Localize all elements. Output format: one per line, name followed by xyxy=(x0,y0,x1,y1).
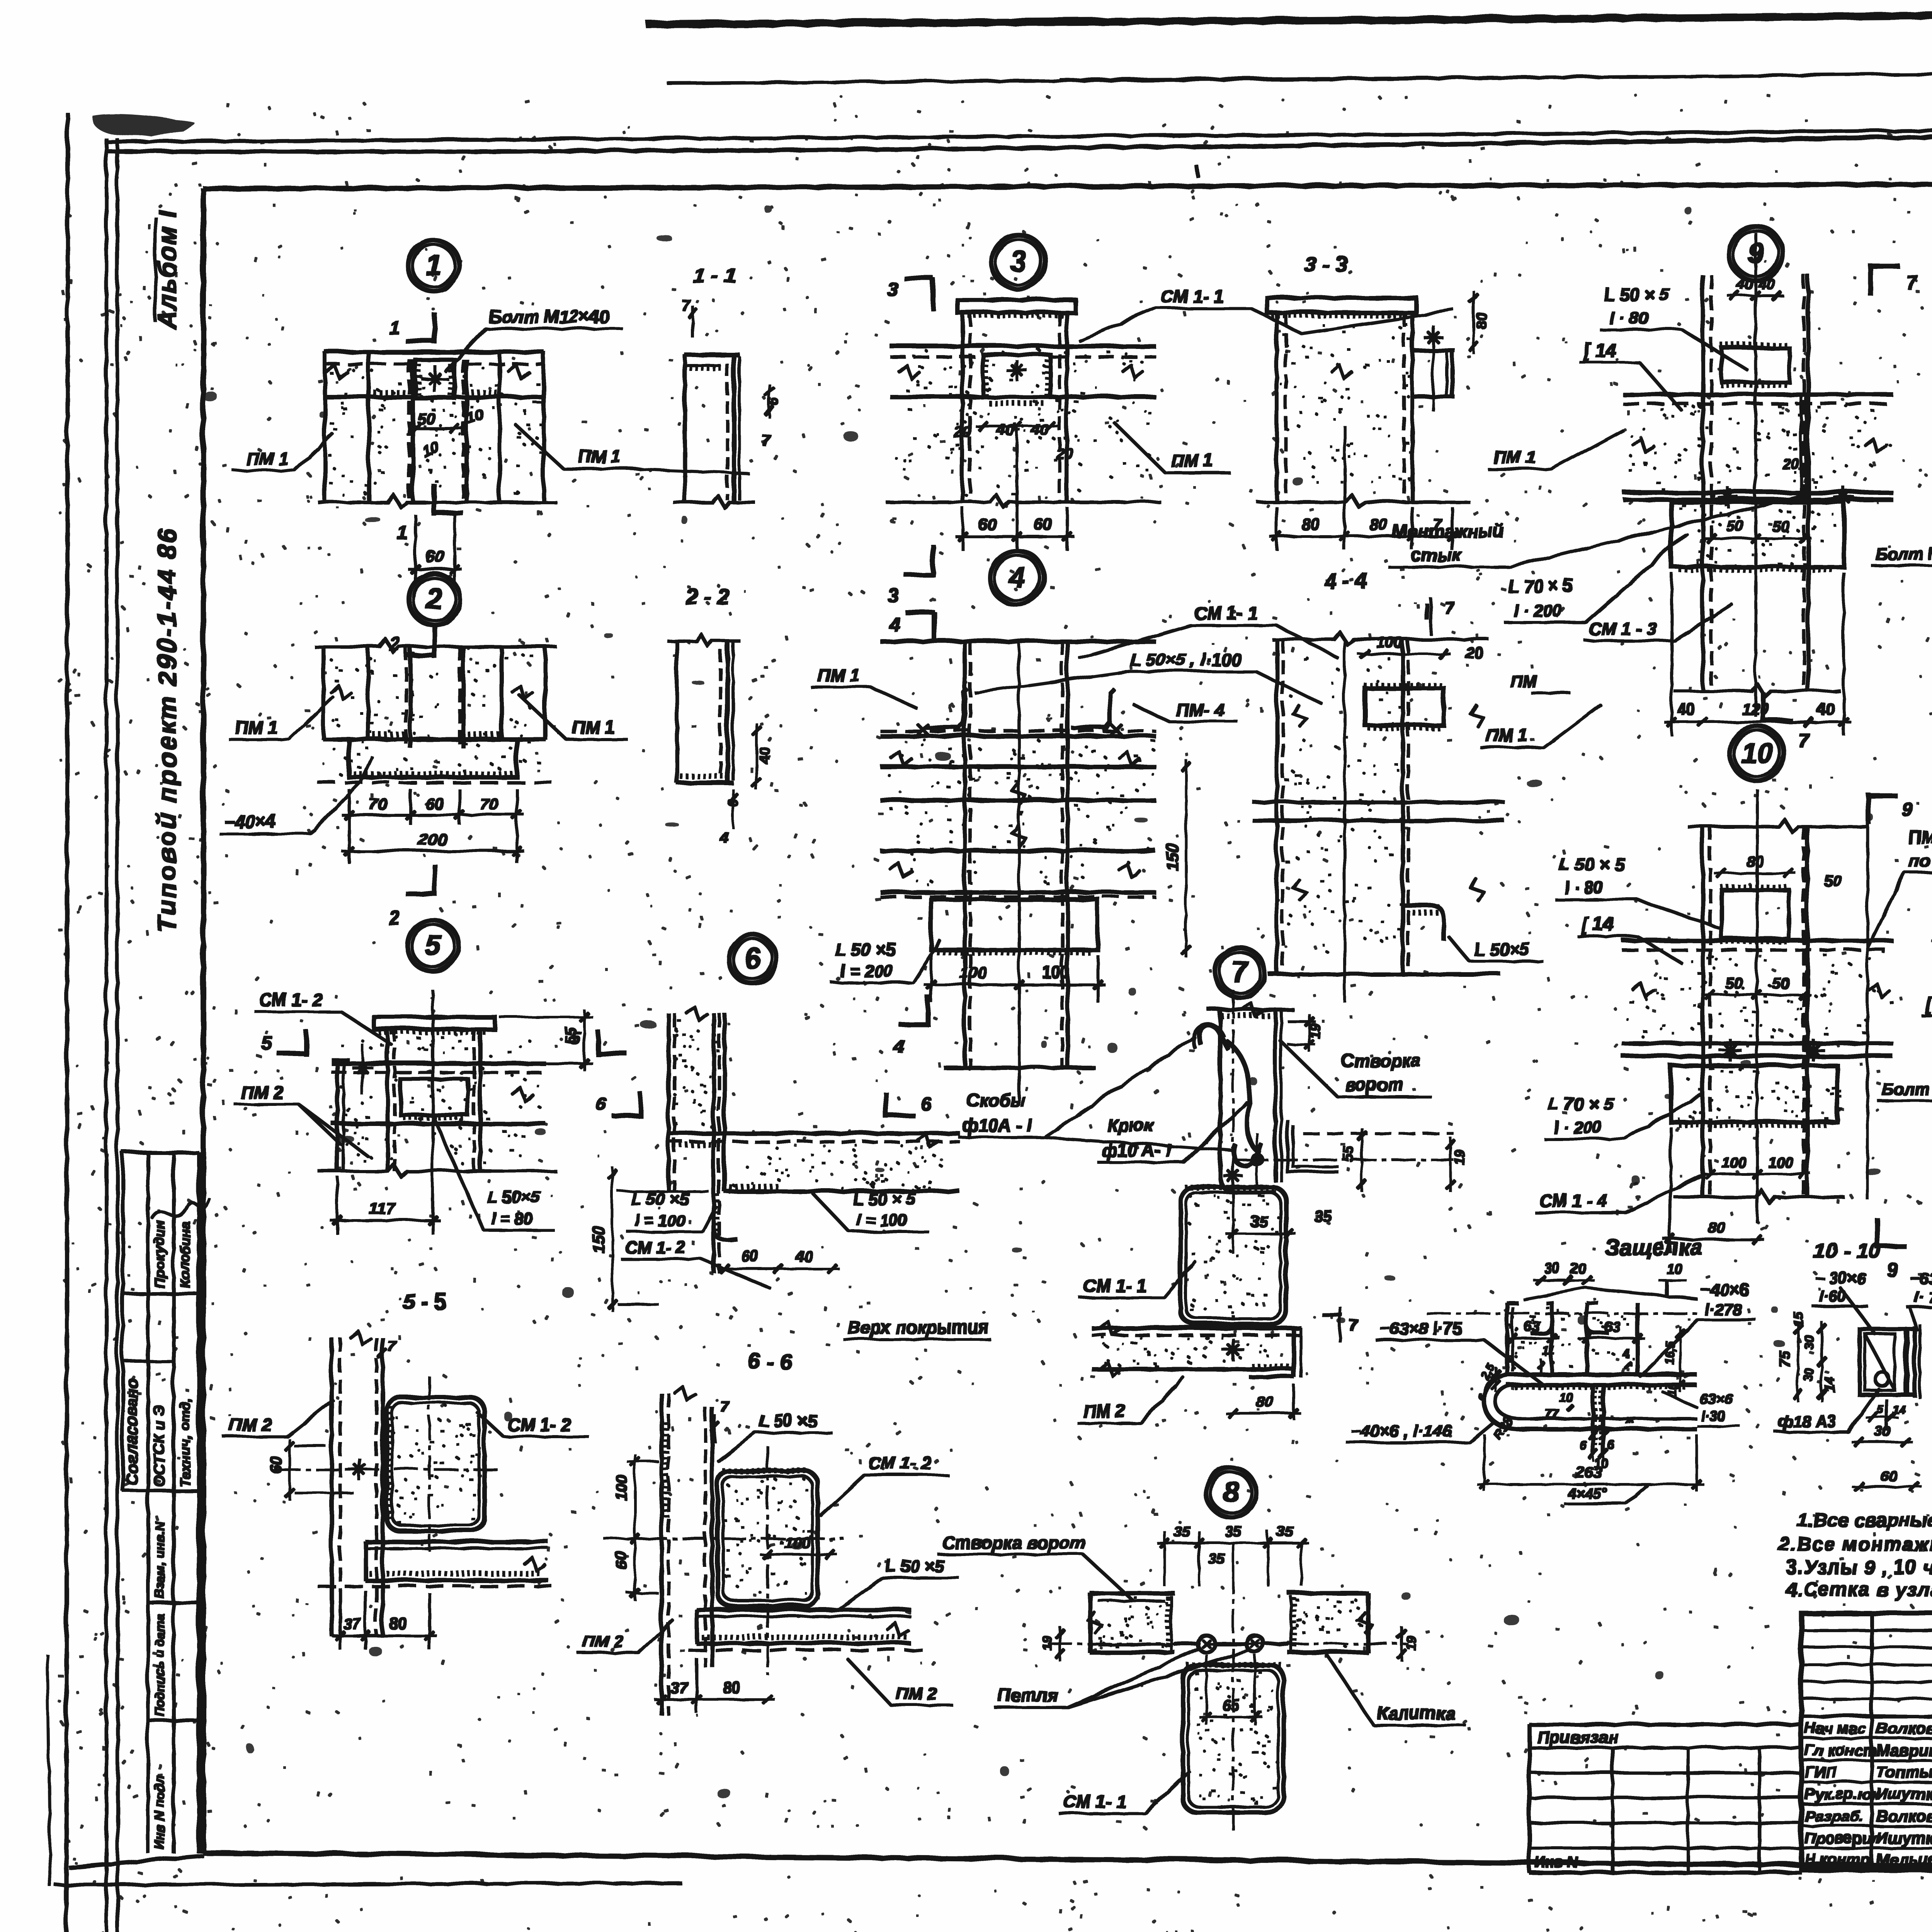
svg-text:6: 6 xyxy=(1474,1391,1488,1402)
node 10 section marker 9 top xyxy=(1867,792,1912,822)
svg-text:ПМ 1: ПМ 1 xyxy=(578,446,620,466)
svg-text:СМ 1- 2: СМ 1- 2 xyxy=(258,988,321,1009)
svg-text:5 - 5: 5 - 5 xyxy=(402,1288,446,1313)
svg-text:263: 263 xyxy=(1575,1463,1601,1480)
latch dims 63 63 11 4 xyxy=(1504,1318,1683,1391)
svg-text:20: 20 xyxy=(953,423,971,440)
node 6 stipple xyxy=(672,1019,941,1189)
node 2 posts and base plate detail xyxy=(314,638,555,781)
svg-text:35: 35 xyxy=(1224,1522,1240,1539)
node 3 bubble xyxy=(990,234,1044,288)
svg-text:1.Все сварные швы Н1Д5 по: 1.Все сварные швы Н1Д5 по ГОСТ 21.107 - … xyxy=(1796,1508,1932,1530)
section 7-7 label Болт М12х40 xyxy=(1870,516,1932,564)
section 4-4 label L50x5 xyxy=(1447,935,1542,960)
svg-text:ПМ 1: ПМ 1 xyxy=(1492,446,1535,466)
svg-text:СМ 1- 2: СМ 1- 2 xyxy=(624,1237,684,1256)
svg-text:37: 37 xyxy=(342,1614,360,1631)
svg-text:50: 50 xyxy=(1823,871,1840,888)
svg-text:6 - 6: 6 - 6 xyxy=(747,1348,791,1372)
svg-text:117: 117 xyxy=(368,1198,395,1216)
svg-text:l · 80: l · 80 xyxy=(1608,308,1647,327)
section 4-4 dims xyxy=(1357,597,1482,660)
node 3 stipple texture xyxy=(895,348,1149,495)
svg-text:Волкова: Волкова xyxy=(1875,1806,1932,1824)
svg-text:5: 5 xyxy=(1876,1402,1883,1415)
node 4 section marker 4 bottom xyxy=(893,995,927,1057)
node 9 label L50x5 l=80 xyxy=(1599,283,1747,369)
svg-text:l · 200: l · 200 xyxy=(1512,600,1561,619)
svg-text:ПМ 2: ПМ 2 xyxy=(582,1631,622,1650)
svg-text:30: 30 xyxy=(1801,1367,1815,1381)
section 3-3 dim 80 right xyxy=(1468,290,1489,352)
svg-text:L 50×5 , l·100: L 50×5 , l·100 xyxy=(1129,648,1240,668)
node 6 bubble xyxy=(728,934,776,982)
section 3-3 dims 80 80 7 xyxy=(1269,425,1458,549)
node 8 bubble xyxy=(1205,1466,1255,1516)
svg-text:60: 60 xyxy=(1879,1467,1896,1483)
stamp rotated texts xyxy=(121,1198,209,1849)
svg-text:8: 8 xyxy=(1222,1475,1238,1507)
svg-text:Петля: Петля xyxy=(997,1684,1057,1704)
svg-text:l = 80: l = 80 xyxy=(490,1208,531,1226)
svg-text:l = 100: l = 100 xyxy=(856,1210,906,1228)
section 3-3 title xyxy=(1303,251,1346,275)
svg-text:L 50 ×5: L 50 ×5 xyxy=(630,1189,688,1207)
svg-text:ПМ 1: ПМ 1 xyxy=(234,716,276,736)
svg-text:ПМ 1: ПМ 1 xyxy=(816,664,859,684)
svg-text:55: 55 xyxy=(561,1026,578,1043)
node 1 section marker 1 top xyxy=(388,312,434,342)
node 9 column joint detail xyxy=(1622,232,1891,715)
node 9 label ПМ1 left xyxy=(1487,429,1622,468)
section 9-9 label Болт М12х40 xyxy=(1876,1066,1932,1099)
node 8 dims 19 19 xyxy=(1039,1626,1417,1660)
node 2 dimensions 70 60 70 xyxy=(341,788,523,862)
svg-text:200: 200 xyxy=(417,829,446,848)
svg-text:L 70 × 5: L 70 × 5 xyxy=(1547,1093,1613,1113)
node 2 label ПМ1 right xyxy=(518,694,626,738)
svg-text:7: 7 xyxy=(1348,1316,1357,1333)
node 5 dim 117 xyxy=(329,1175,439,1233)
node 8 label Петля xyxy=(993,1648,1248,1706)
node 4 dims 100 100 150 xyxy=(923,759,1189,1001)
node 5 bubble xyxy=(406,919,457,970)
svg-text:L 50 ×5: L 50 ×5 xyxy=(758,1411,816,1430)
node 9 label ПМ1 lower left xyxy=(1479,703,1600,746)
node 6 marker 6 right xyxy=(885,1092,930,1117)
svg-text:3: 3 xyxy=(886,278,897,299)
svg-text:L 50 ×5: L 50 ×5 xyxy=(885,1556,943,1575)
node 9 section marker 7 bottom xyxy=(1762,692,1808,750)
latch title Защелка xyxy=(1604,1234,1702,1259)
node 7 label ПМ2 xyxy=(1077,1376,1182,1422)
latch dims left 2,5 6 xyxy=(1474,1360,1499,1402)
svg-text:Волков: Волков xyxy=(1875,1718,1932,1736)
svg-text:−63×8: −63×8 xyxy=(1909,1268,1932,1286)
svg-text:100: 100 xyxy=(612,1473,629,1499)
svg-text:11: 11 xyxy=(1542,1343,1554,1357)
svg-text:4: 4 xyxy=(893,1036,904,1057)
node 4 bubble xyxy=(989,549,1043,604)
svg-text:Топтыгин: Топтыгин xyxy=(1875,1762,1932,1780)
node 7 hinge bolt and angle xyxy=(1233,1119,1452,1184)
svg-text:Мельцес: Мельцес xyxy=(1875,1849,1932,1867)
svg-text:ПМ 1: ПМ 1 xyxy=(571,716,614,736)
svg-text:СМ 1- 1: СМ 1- 1 xyxy=(1159,285,1223,305)
svg-text:Болт М12×40: Болт М12×40 xyxy=(1880,1078,1932,1097)
svg-text:Крюк: Крюк xyxy=(1106,1114,1153,1134)
svg-text:80: 80 xyxy=(1745,852,1763,869)
svg-text:ПМ 2: ПМ 2 xyxy=(228,1413,270,1434)
section 9-9 label ПМ2 крепить по узлам 5 и 6 xyxy=(1866,826,1932,947)
node 5 markers 5 xyxy=(260,1027,626,1055)
svg-text:Створка: Створка xyxy=(1340,1049,1420,1070)
svg-text:СМ 1- 1: СМ 1- 1 xyxy=(1062,1790,1125,1810)
svg-text:60: 60 xyxy=(424,546,443,565)
node 2 dimension 200 xyxy=(341,829,523,854)
svg-text:19: 19 xyxy=(1039,1634,1053,1649)
section 10-10 bracket detail xyxy=(1858,1316,1932,1495)
svg-text:63: 63 xyxy=(1523,1318,1539,1333)
svg-text:80: 80 xyxy=(722,1678,739,1695)
outer double border left xyxy=(105,138,117,1932)
svg-text:−40×4: −40×4 xyxy=(223,811,275,831)
node 7 label Крюк ф10 А-I xyxy=(1097,1101,1246,1161)
svg-text:Скобы: Скобы xyxy=(965,1089,1024,1109)
svg-text:80: 80 xyxy=(1707,1218,1725,1235)
node 3 dims 20 40 40 20 xyxy=(953,420,1072,461)
node 10 label СМ 1-4 xyxy=(1534,1175,1700,1211)
node 4 label L50x5 l=200 xyxy=(830,938,939,981)
svg-text:20: 20 xyxy=(1781,455,1798,471)
section 2-2 title xyxy=(684,583,728,607)
svg-text:4×45°: 4×45° xyxy=(1566,1485,1606,1501)
node 5 cap and rails detail xyxy=(317,989,555,1198)
svg-text:10: 10 xyxy=(419,438,440,459)
svg-text:СМ 1- 2: СМ 1- 2 xyxy=(867,1452,930,1472)
svg-text:6: 6 xyxy=(1578,1437,1585,1451)
node 1 label ПМ1 right xyxy=(514,423,748,472)
svg-text:l · 80: l · 80 xyxy=(1563,878,1602,896)
svg-text:Согласовано: Согласовано xyxy=(121,1377,139,1484)
svg-text:Гл конст.: Гл конст. xyxy=(1804,1741,1879,1758)
section 6-6 dim 7 top xyxy=(710,1397,728,1441)
svg-text:30: 30 xyxy=(1544,1260,1559,1276)
svg-text:40: 40 xyxy=(1030,420,1048,437)
node 7 dim 80 xyxy=(1225,1383,1299,1418)
svg-text:Колобина: Колобина xyxy=(176,1220,192,1287)
node 10 stipple xyxy=(1627,951,1892,1122)
svg-text:60: 60 xyxy=(612,1551,629,1568)
svg-text:4: 4 xyxy=(719,829,728,846)
svg-text:40: 40 xyxy=(755,746,772,764)
svg-text:9: 9 xyxy=(1886,1258,1896,1279)
node 9 dims 40 40 xyxy=(1726,275,1782,299)
node 4 label СМ 1-1 xyxy=(1078,602,1337,657)
svg-text:L 50 × 5: L 50 × 5 xyxy=(852,1189,915,1207)
node 2 section marker bottom xyxy=(388,864,434,928)
section 6-6 stipple xyxy=(723,1478,810,1592)
svg-text:30: 30 xyxy=(1801,1334,1815,1349)
node 9 label Монтажный стык xyxy=(1387,495,1800,566)
svg-text:L 50 × 5: L 50 × 5 xyxy=(1603,283,1669,303)
svg-text:2 - 2: 2 - 2 xyxy=(684,583,728,607)
svg-text:[ 14: [ 14 xyxy=(1923,992,1932,1013)
svg-text:Технич, отд,: Технич, отд, xyxy=(176,1396,192,1486)
svg-text:7: 7 xyxy=(1231,955,1248,987)
node 8 label Створка ворот xyxy=(937,1531,1132,1600)
node 9 label СМ 1-3 xyxy=(1583,603,1731,639)
svg-text:l = 100: l = 100 xyxy=(634,1210,684,1228)
svg-text:19: 19 xyxy=(1306,1022,1321,1037)
section 6-6 label СМ 1-2 xyxy=(819,1452,947,1515)
svg-text:Ишуткин: Ишуткин xyxy=(1875,1828,1932,1846)
svg-text:14: 14 xyxy=(1822,1376,1837,1391)
svg-text:Ишуткин: Ишуткин xyxy=(1875,1784,1932,1802)
svg-text:Альбом I: Альбом I xyxy=(152,208,180,328)
node 5 stipple xyxy=(339,1036,539,1163)
svg-text:50: 50 xyxy=(1771,974,1788,991)
node 4 label ПМ-4 xyxy=(1132,699,1236,721)
section 3-3 stipple xyxy=(1279,323,1411,482)
svg-text:ПМ 1: ПМ 1 xyxy=(245,447,287,468)
latch label -63x8 l=75 xyxy=(1375,1318,1542,1383)
bottom scan shadow lines xyxy=(46,1654,1932,1932)
section 5-5 dims 37 80 xyxy=(332,1590,435,1648)
node 6 label L50x5 l=100 left xyxy=(626,1189,715,1231)
svg-text:Н контр: Н контр xyxy=(1804,1850,1869,1867)
svg-text:ПМ 1: ПМ 1 xyxy=(1485,724,1527,744)
svg-text:40: 40 xyxy=(794,1247,812,1264)
section 6-6 title xyxy=(747,1348,791,1372)
svg-text:ГИП: ГИП xyxy=(1804,1763,1836,1780)
svg-text:10: 10 xyxy=(1740,736,1772,768)
svg-text:80: 80 xyxy=(1255,1392,1272,1409)
svg-text:16,5: 16,5 xyxy=(1662,1340,1676,1364)
main drawing frame xyxy=(202,182,1932,1869)
svg-text:5: 5 xyxy=(423,928,440,960)
left stamp table xyxy=(122,1151,197,1852)
svg-text:70: 70 xyxy=(368,794,386,812)
section 6-6 dims 100 60 xyxy=(612,1453,657,1599)
svg-text:ф10А - І: ф10А - І xyxy=(961,1114,1031,1134)
node 5 label ПМ2 xyxy=(233,1081,367,1155)
svg-text:L 50×5: L 50×5 xyxy=(1473,938,1529,958)
section 4-4 detail xyxy=(1252,631,1503,1001)
svg-text:35: 35 xyxy=(1276,1522,1292,1539)
latch detail drawing xyxy=(1426,1302,1695,1453)
node 6 label L50x5 l=100 right xyxy=(811,1189,927,1231)
svg-text:l·30: l·30 xyxy=(1700,1407,1724,1423)
section 2-2 dims xyxy=(719,723,772,846)
svg-text:4 - 4: 4 - 4 xyxy=(1323,568,1367,592)
node 8 dims 35 35 35 xyxy=(1156,1522,1307,1584)
node 7 gate latch detail xyxy=(1192,989,1293,1217)
svg-text:60: 60 xyxy=(977,514,995,532)
node 10 column joint detail xyxy=(1621,788,1891,1221)
node 8 label СМ 1-1 xyxy=(1058,1770,1188,1812)
svg-text:ПМ 2 крепить: ПМ 2 крепить xyxy=(1907,826,1932,846)
svg-text:6: 6 xyxy=(594,1093,605,1113)
node 9 stipple xyxy=(1628,402,1889,565)
svg-text:60: 60 xyxy=(425,794,443,812)
section 1-1 channel xyxy=(672,354,753,506)
svg-text:7: 7 xyxy=(760,431,770,448)
svg-text:20: 20 xyxy=(1569,1260,1585,1276)
node 2 label ПМ1 left xyxy=(228,696,332,738)
node 4 label ПМ1 xyxy=(810,664,916,707)
svg-text:6: 6 xyxy=(765,397,781,405)
node 7 label СМ1-1 xyxy=(1078,1260,1194,1296)
svg-text:9: 9 xyxy=(1901,798,1912,820)
node 3 label СМ 1-1 with leaders xyxy=(1078,285,1453,340)
svg-text:ф18 А3: ф18 А3 xyxy=(1777,1411,1835,1429)
svg-text:19: 19 xyxy=(1403,1634,1417,1649)
section 6-6 dim 100 center xyxy=(759,1533,836,1558)
node 3 section marker 3 top xyxy=(886,277,932,309)
node 7 dim 55 19 xyxy=(1339,1127,1466,1190)
node 1 bubble xyxy=(407,239,458,290)
svg-text:Привязан: Привязан xyxy=(1536,1727,1617,1746)
node 1 label ПМ1 left xyxy=(232,433,332,469)
node 5 label СМ 1-2 xyxy=(254,988,390,1043)
svg-text:150: 150 xyxy=(588,1225,606,1252)
svg-text:ворот: ворот xyxy=(1344,1073,1403,1094)
node 4 stipple xyxy=(887,738,1153,884)
node 3 post cap detail xyxy=(885,299,1159,506)
svg-text:3 - 3: 3 - 3 xyxy=(1303,251,1346,275)
svg-text:[ 14: [ 14 xyxy=(1580,913,1612,934)
svg-text:ж: ж xyxy=(1624,1412,1634,1425)
side caption: Альбом I xyxy=(152,208,180,328)
svg-text:СМ 1 - 4: СМ 1 - 4 xyxy=(1538,1189,1606,1209)
node 2 section marker top xyxy=(388,626,434,657)
node 10 section marker 9 bottom xyxy=(1876,1217,1905,1279)
svg-text:10 - 10: 10 - 10 xyxy=(1812,1237,1879,1262)
section 5-5 dim 60 xyxy=(266,1438,352,1498)
node 3 label ПМ1 xyxy=(1113,421,1229,471)
svg-text:35: 35 xyxy=(1172,1522,1189,1539)
svg-text:Подпись и дата: Подпись и дата xyxy=(151,1612,166,1716)
svg-text:100: 100 xyxy=(1767,1153,1791,1170)
svg-text:7: 7 xyxy=(386,1337,396,1354)
svg-text:l = 200: l = 200 xyxy=(839,961,892,980)
svg-text:7: 7 xyxy=(680,296,689,313)
node 7 dims 35 35 xyxy=(1225,1207,1330,1252)
section 2-2 channel xyxy=(667,634,739,782)
node 1 dimension 50/10/10 xyxy=(407,405,485,459)
svg-text:80: 80 xyxy=(1301,514,1319,532)
svg-text:40: 40 xyxy=(1757,275,1773,291)
svg-text:3.Узлы 9 , 10 читать совмес: 3.Узлы 9 , 10 читать совместна с листом … xyxy=(1785,1555,1932,1577)
svg-text:по узлам 5 и 6: по узлам 5 и 6 xyxy=(1907,849,1932,869)
svg-text:70: 70 xyxy=(479,794,497,812)
node 10 label Л70х5 l=200 xyxy=(1543,1093,1700,1138)
node 9 label Л70х5 l=200 xyxy=(1503,533,1685,621)
svg-text:35: 35 xyxy=(1250,1212,1267,1229)
svg-text:6: 6 xyxy=(743,942,760,974)
svg-text:7: 7 xyxy=(1797,728,1808,750)
node 3 dims 60 60 xyxy=(954,425,1073,549)
section 6-6 label L50x5 right xyxy=(838,1556,957,1607)
node 5 dim 55 xyxy=(498,1009,591,1069)
outer double border top xyxy=(105,123,1932,150)
svg-text:50: 50 xyxy=(1724,974,1742,991)
node 6 dim 60 40 xyxy=(716,1247,838,1272)
node 8 label Калитка xyxy=(1325,1653,1464,1724)
svg-text:100: 100 xyxy=(958,962,985,980)
svg-text:80: 80 xyxy=(1368,514,1386,532)
svg-text:50: 50 xyxy=(1771,517,1788,534)
svg-text:40: 40 xyxy=(1676,700,1694,717)
node 2 bubble xyxy=(408,573,459,624)
node 6 marker 6 left xyxy=(594,1092,639,1117)
svg-text:ПМ 2: ПМ 2 xyxy=(1082,1400,1124,1420)
svg-text:20: 20 xyxy=(1464,643,1482,660)
node 9 dims 40 120 40 bottom xyxy=(1663,572,1850,734)
svg-text:3: 3 xyxy=(886,583,897,605)
node 1 label Болт М12х40 xyxy=(444,306,621,371)
node 1 beam and posts detail xyxy=(317,351,555,506)
section 5-5 title xyxy=(402,1288,446,1313)
node 10 bubble xyxy=(1729,725,1783,779)
section 5-5 label СМ 1-2 xyxy=(475,1410,587,1435)
node 10 dims xyxy=(1663,852,1840,1252)
svg-text:120: 120 xyxy=(1741,699,1768,717)
label ПМ1 right of 4-4 xyxy=(1509,671,1569,692)
svg-text:СМ 1- 1: СМ 1- 1 xyxy=(1193,602,1257,622)
node 6 label Верх покрытия xyxy=(842,1316,989,1338)
svg-text:2: 2 xyxy=(424,582,441,614)
svg-text:−63×8 l·75: −63×8 l·75 xyxy=(1379,1318,1461,1337)
svg-text:10: 10 xyxy=(1665,1260,1681,1276)
svg-text:СМ 1- 1: СМ 1- 1 xyxy=(1082,1274,1145,1294)
scan corner blob xyxy=(92,114,193,134)
svg-text:6: 6 xyxy=(1607,1437,1614,1451)
svg-text:L 70 × 5: L 70 × 5 xyxy=(1507,575,1573,595)
svg-text:7: 7 xyxy=(1905,270,1917,292)
node 8 gate leaves detail xyxy=(1047,1569,1406,1832)
svg-text:− 30×6: − 30×6 xyxy=(1814,1268,1865,1286)
node 3 section marker 3 bottom xyxy=(886,544,932,605)
svg-text:4: 4 xyxy=(1621,1345,1628,1359)
node 6 dim 150 xyxy=(588,1166,707,1310)
latch label -63x6 l=30 xyxy=(1662,1390,1739,1425)
node 4 section marker 4 top xyxy=(888,612,934,641)
svg-text:65: 65 xyxy=(1221,1696,1238,1713)
section 1-1 dims xyxy=(680,296,781,448)
svg-text:60: 60 xyxy=(1033,514,1051,532)
node 1 section marker 1 bottom xyxy=(396,483,461,542)
node 7 stipple xyxy=(1101,1194,1278,1365)
svg-text:100: 100 xyxy=(1720,1153,1745,1170)
latch dims lower xyxy=(1489,1383,1678,1469)
svg-text:Маврин: Маврин xyxy=(1875,1740,1932,1758)
node 1 dimension 60 xyxy=(407,514,460,582)
svg-text:L 50×5: L 50×5 xyxy=(486,1187,539,1206)
node 7 pipe section xyxy=(1179,1165,1285,1345)
svg-text:[ 14: [ 14 xyxy=(1582,339,1615,360)
svg-text:Рук.гр.юк: Рук.гр.юк xyxy=(1804,1785,1879,1802)
svg-text:19: 19 xyxy=(1450,1148,1466,1164)
svg-text:ПМ 2: ПМ 2 xyxy=(240,1081,282,1101)
svg-text:35: 35 xyxy=(1207,1549,1223,1566)
svg-text:СМ 1- 2: СМ 1- 2 xyxy=(506,1413,570,1434)
svg-text:Инв N: Инв N xyxy=(1534,1854,1578,1870)
svg-text:6: 6 xyxy=(920,1093,930,1113)
svg-text:l· 75: l· 75 xyxy=(1913,1288,1932,1305)
section 6-6 label ПМ2 right xyxy=(846,1658,951,1704)
